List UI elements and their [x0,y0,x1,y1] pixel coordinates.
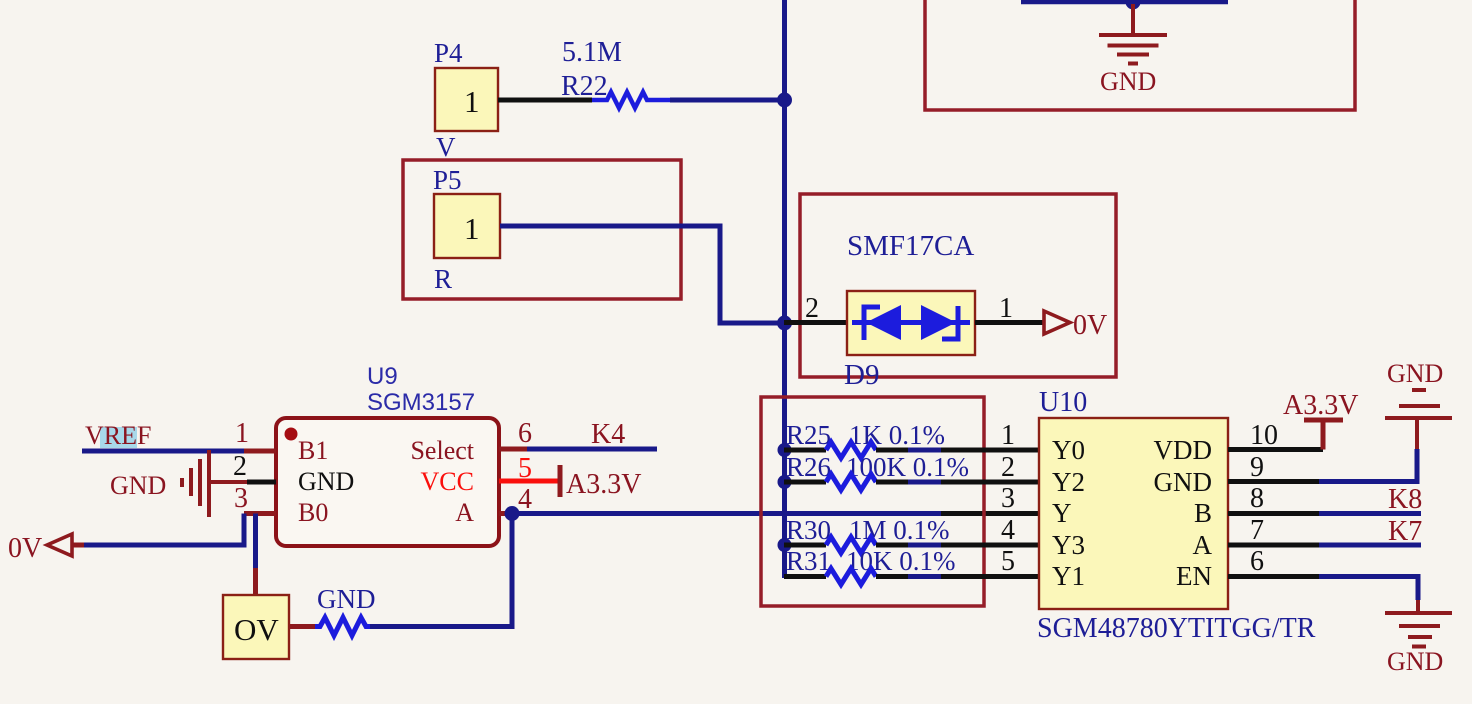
op U9 body [276,418,499,546]
svg-text:GND: GND [1387,359,1443,388]
wire: P4 to R22 (black) [498,98,592,103]
svg-text:D9: D9 [844,359,879,391]
svg-text:10K 0.1%: 10K 0.1% [846,546,956,576]
wire: OV to resistor (red stub) [289,624,315,629]
svg-text:VDD: VDD [1154,435,1213,465]
svg-text:100K 0.1%: 100K 0.1% [846,452,969,482]
U10 pin 6 [1228,574,1319,579]
svg-text:R26: R26 [786,452,831,482]
U9 pin 6 [499,447,527,452]
svg-text:5: 5 [1001,546,1015,577]
diode D9 TVS symbol [852,305,970,340]
svg-text:A: A [1193,530,1213,560]
svg-text:0V: 0V [1073,310,1107,341]
svg-text:GND: GND [317,584,376,614]
svg-text:B: B [1194,498,1212,528]
svg-text:R: R [434,264,452,294]
svg-text:R30: R30 [786,515,831,545]
svg-text:R22: R22 [561,71,608,102]
connector OV box [223,595,289,659]
node: junction R25 [778,443,792,457]
svg-text:8: 8 [1250,483,1264,514]
svg-text:1: 1 [464,84,480,119]
svg-text:Y2: Y2 [1052,467,1085,497]
svg-text:K8: K8 [1388,484,1422,515]
node: junction R22/vertical [777,93,792,108]
resistor R25 [784,448,826,453]
svg-text:1K 0.1%: 1K 0.1% [849,420,945,450]
node: junction A/OV [505,506,520,521]
wire: resistor to U9 pin A [370,514,512,627]
svg-text:OV: OV [234,612,279,647]
wire: GND to pin 9 [1319,449,1417,482]
resistor R22 [592,92,670,108]
U9 pin 5 (VCC) [499,479,558,484]
svg-text:SMF17CA: SMF17CA [847,230,974,262]
svg-text:GND: GND [110,471,166,500]
svg-text:VCC: VCC [421,467,474,496]
svg-text:1: 1 [235,418,249,449]
connector P4 box [435,68,498,131]
svg-text:0V: 0V [8,533,42,564]
sheet box around D9 [800,194,1116,377]
svg-text:SGM48780YTITGG/TR: SGM48780YTITGG/TR [1037,613,1316,644]
svg-text:P4: P4 [434,38,463,68]
svg-text:A3.3V: A3.3V [566,469,641,500]
wire: VREF net [82,449,244,454]
svg-text:U9: U9 [367,363,398,390]
ground GND (bottom right) [1385,600,1452,647]
svg-text:A: A [455,498,474,527]
wire: K8 net [1319,511,1421,516]
svg-text:U10: U10 [1039,387,1087,418]
svg-text:GND: GND [1387,647,1443,676]
U9 pin 1 [244,449,276,454]
wire: P5 to node [500,226,784,323]
svg-text:B1: B1 [298,436,328,465]
connector P5 box [434,194,500,258]
svg-text:SGM3157: SGM3157 [367,389,475,416]
svg-text:2: 2 [233,451,247,482]
wire: EN to GND [1319,577,1418,601]
svg-text:10: 10 [1250,420,1278,451]
svg-text:Y0: Y0 [1052,435,1085,465]
svg-text:R25: R25 [786,420,831,450]
svg-text:1: 1 [1001,420,1015,451]
wire: blue bus stub top [1021,0,1228,4]
svg-text:1: 1 [464,211,480,246]
node: junction top [1126,0,1141,10]
net label VREF [100,427,137,448]
svg-text:7: 7 [1250,515,1264,546]
svg-text:V: V [436,132,456,162]
U9 pin-1 dot [285,428,298,441]
svg-text:K7: K7 [1388,516,1422,547]
svg-text:VREF: VREF [85,421,151,450]
svg-text:GND: GND [1100,67,1156,96]
svg-text:1M 0.1%: 1M 0.1% [849,515,950,545]
node: junction R26 [778,475,792,489]
svg-text:P5: P5 [433,165,462,195]
power port A3.3V bar at U9 [558,465,563,497]
U9 pin 3 [244,511,276,516]
wire: D9 pin 1 to 0V [975,320,1044,325]
wire: main vertical net [782,0,787,578]
sheet box top right [925,0,1355,110]
resistor R30 [784,543,826,548]
wire: K4 net [527,447,657,452]
node: junction R30 [778,538,792,552]
svg-text:9: 9 [1250,452,1264,483]
svg-text:5: 5 [518,453,532,484]
svg-text:A3.3V: A3.3V [1283,390,1358,421]
U10 pin 8 [1228,511,1319,516]
svg-text:K4: K4 [591,419,625,450]
svg-text:Y: Y [1052,498,1072,528]
svg-text:R31: R31 [786,546,831,576]
svg-text:3: 3 [234,483,248,514]
U10 pin 10 [1228,447,1323,452]
svg-text:6: 6 [1250,546,1264,577]
U9 pin 2 [247,480,276,485]
svg-text:6: 6 [518,418,532,449]
svg-text:Select: Select [410,436,474,465]
resistor (GND net) [315,618,370,636]
svg-text:B0: B0 [298,498,328,527]
power port GND at U9 pin 2 [182,450,247,517]
ground GND (top right, inverted) [1385,390,1452,449]
power port 0V (left) arrow [47,534,72,556]
svg-text:EN: EN [1176,561,1212,591]
resistor R31 [784,574,826,579]
svg-text:5.1M: 5.1M [562,37,622,68]
U10 pin 7 [1228,543,1319,548]
svg-text:Y3: Y3 [1052,530,1085,560]
wire: K7 net [1319,543,1421,548]
svg-text:2: 2 [805,293,819,324]
resistor R26 [784,480,826,485]
svg-text:4: 4 [1001,515,1015,546]
svg-text:3: 3 [1001,483,1015,514]
wire: node to D9 pin 2 [784,320,847,325]
wire: row3 black to U10 [941,511,1041,516]
sheet box around P5 [403,160,681,299]
power port 0V (right) arrow [1044,311,1070,334]
node: junction P5/D9 [777,316,792,331]
ground GND (top, inside sheet box) [1099,4,1167,64]
U10 pin 9 [1228,479,1319,484]
svg-text:4: 4 [518,484,532,515]
svg-text:2: 2 [1001,452,1015,483]
mux U10 body [1039,418,1228,609]
wire: R22 to vertical net [670,98,784,103]
U9 pin 4 [499,511,512,516]
wire: pin3 down to 0V [83,514,244,546]
diode D9 body [847,291,975,355]
svg-text:1: 1 [999,293,1013,324]
power port A3.3V at U10 [1321,420,1326,450]
wire: A net to resistor network [512,511,941,516]
svg-text:GND: GND [1154,467,1213,497]
sheet box around resistor network [761,397,984,606]
svg-text:GND: GND [298,467,354,496]
svg-text:Y1: Y1 [1052,561,1085,591]
wire: pin3 down to OV connector [253,514,258,569]
